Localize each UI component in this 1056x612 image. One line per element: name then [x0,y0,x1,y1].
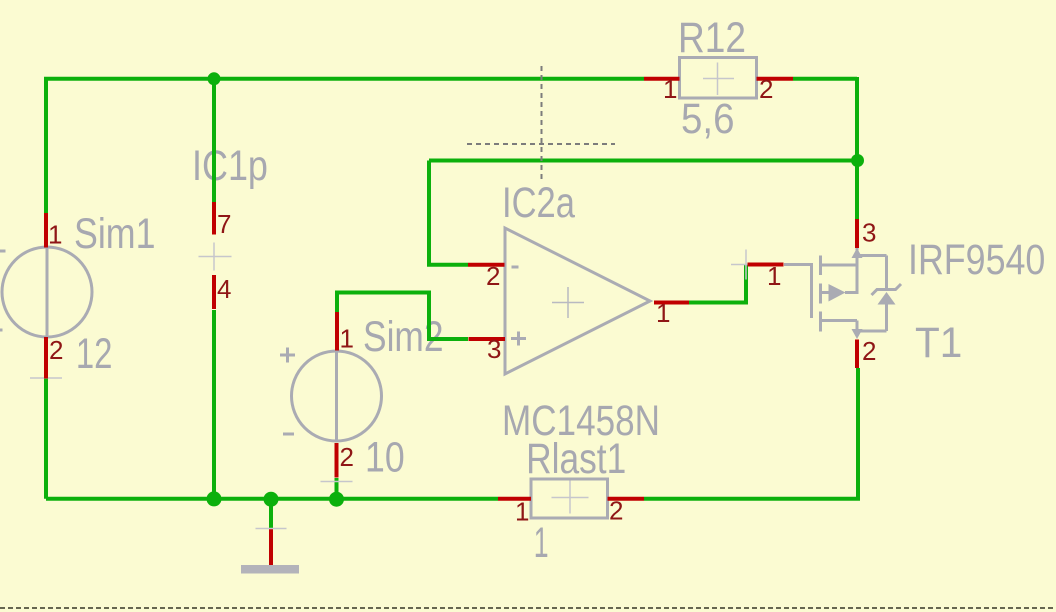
wire IC1p bottom to rail [212,310,216,499]
svg-text:2: 2 [609,496,623,526]
junction bottom rail ground [264,492,279,507]
pin 1 Sim1 [44,213,48,248]
ground pin [269,529,273,565]
origin cross Rlast1 [552,481,589,514]
plus sign Sim2 [280,348,295,363]
svg-text:R12: R12 [678,13,746,61]
svg-text:T1: T1 [915,318,962,366]
junction top rail IC1p [208,72,221,85]
origin cross Sim2 [321,481,353,483]
wire top rail left segment [46,79,644,213]
channel segment bottom [819,312,822,332]
svg-text:Sim2: Sim2 [363,313,443,361]
op-amp IC2a [505,228,650,374]
junction bottom rail IC1p [207,491,222,506]
bulk stub [822,291,829,294]
pin 1 Sim2 [335,312,339,351]
pin 7 IC1p [212,202,216,235]
svg-text:3: 3 [487,334,501,364]
svg-text:2: 2 [862,336,876,366]
svg-text:1: 1 [663,74,677,104]
origin cross IC1p [199,243,232,271]
source vertical top [856,248,859,293]
plus input mark [511,332,526,346]
svg-text:12: 12 [76,330,113,378]
dashed crosshair vertical [541,66,543,180]
svg-text:1: 1 [340,324,354,354]
wire right vertical to T1 source [855,78,859,219]
minus sign Sim2 [283,433,294,436]
pin 3 IC2a [469,337,506,341]
origin cross ground [256,528,287,530]
svg-text:Sim1: Sim1 [74,210,156,258]
source stub bottom [821,319,858,322]
svg-text:5,6: 5,6 [681,94,734,142]
ground bar [241,565,299,574]
bulk arrow line [845,291,859,294]
origin cross T1 [731,250,761,280]
junction feedback right [851,154,864,167]
transistor T1 MOSFET symbol [784,248,901,333]
resistor R12 [680,58,757,99]
drain vertical bottom [856,321,859,334]
svg-text:IRF9540: IRF9540 [908,236,1045,284]
pin 2 R12 [757,77,794,81]
svg-text:1: 1 [656,298,670,328]
svg-text:2: 2 [759,74,773,104]
body diode vertical [885,256,888,290]
pin 2 T1 drain [855,340,859,369]
body diode triangle [878,292,896,305]
svg-text:10: 10 [365,433,405,481]
svg-text:1: 1 [767,261,781,291]
wire feedback vertical to op-amp pin 2 [429,161,468,265]
pin 4 IC1p [212,275,216,309]
pin 2 Sim2 [335,443,339,478]
svg-text:2: 2 [49,335,63,365]
wire op-amp output to T1 gate [689,265,746,303]
origin cross R12 [703,63,734,96]
wire bottom rail left [46,497,498,501]
svg-text:3: 3 [862,218,876,248]
wire feedback horizontal [429,159,857,163]
svg-text:4: 4 [217,274,231,304]
minus input mark [512,266,519,269]
voltage source Sim2 [292,351,382,441]
resistor Rlast1 [531,479,608,518]
svg-text:7: 7 [217,209,231,239]
pin 3 T1 source [855,219,859,248]
svg-text:1: 1 [48,220,62,250]
pin 1 IC2a output [654,301,689,305]
plus sign Sim1 (cut off at edge) [0,250,6,253]
svg-text:Rlast1: Rlast1 [526,435,626,483]
svg-text:IC1p: IC1p [192,142,268,190]
wire IC1p top from rail [212,79,216,202]
svg-text:2: 2 [340,442,354,472]
bulk arrow head [829,284,846,302]
dashed crosshair horizontal [467,143,615,145]
svg-text:IC2a: IC2a [502,180,575,227]
origin cross Sim1 [30,377,62,379]
pin 1 R12 [644,77,680,81]
wire top rail right segment [793,77,857,79]
drain stub top [821,264,858,267]
svg-text:1: 1 [515,497,529,527]
voltage source Sim1 [2,247,92,337]
pin 2 Sim1 [44,337,48,379]
svg-text:2: 2 [486,261,500,291]
pin 1 T1 gate [748,263,784,267]
channel segment top [819,256,822,276]
body diode cathode bar with hooks [872,284,902,295]
junction bottom rail Sim2 [329,492,344,507]
drain arrow head [852,329,863,339]
gate lead and gate bar [784,265,812,319]
pin 1 Rlast1 [498,497,531,501]
channel segment middle [819,284,822,304]
page boundary dashed bottom [0,607,1056,609]
svg-text:1: 1 [534,519,549,567]
wire Sim2 pin2 stub [335,478,339,499]
wire left vertical lower [44,379,48,499]
source arrow head [852,248,863,258]
pin 2 IC2a [468,263,505,267]
minus sign Sim1 (cut off at edge) [0,329,3,332]
wire ground stub [269,499,273,529]
pin 2 Rlast1 [608,497,645,501]
wire bottom rail right [644,368,858,499]
body diode branch top [857,254,887,257]
body diode branch bottom [857,330,887,333]
wire Sim2 pin1 to op-amp pin3 [337,293,468,340]
origin cross IC2a [552,287,584,318]
